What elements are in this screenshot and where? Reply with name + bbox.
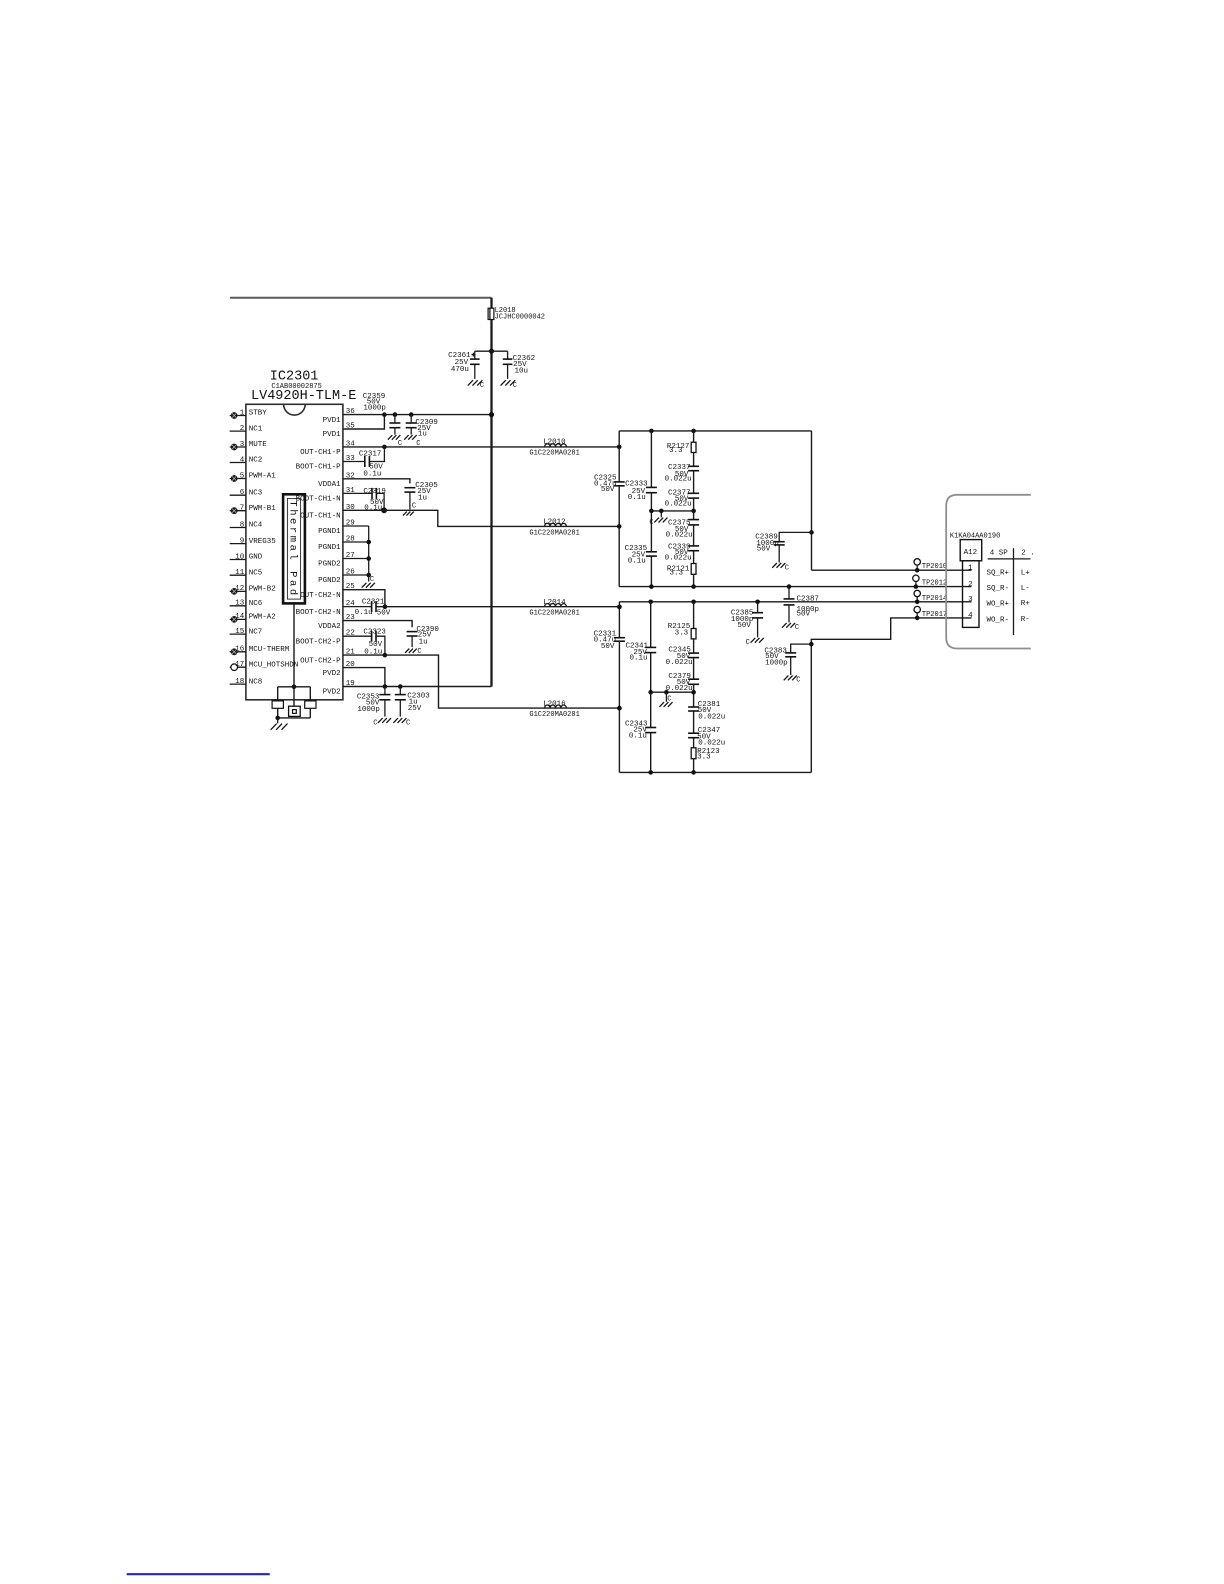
svg-text:4 SP: 4 SP bbox=[990, 550, 1009, 558]
svg-text:4: 4 bbox=[968, 612, 973, 620]
svg-text:0.1u: 0.1u bbox=[628, 494, 646, 502]
svg-text:NC6: NC6 bbox=[249, 600, 263, 608]
svg-text:d: d bbox=[287, 589, 299, 595]
svg-text:BOOT-CH2-P: BOOT-CH2-P bbox=[296, 638, 342, 646]
svg-text:WO_R+: WO_R+ bbox=[987, 601, 1010, 609]
svg-text:G1C220MA0281: G1C220MA0281 bbox=[529, 450, 579, 458]
svg-text:L2012: L2012 bbox=[543, 519, 566, 527]
svg-text:1: 1 bbox=[968, 564, 973, 572]
svg-text:R-: R- bbox=[1021, 616, 1030, 624]
svg-text:PVD1: PVD1 bbox=[323, 431, 342, 439]
capacitor C2361 bbox=[448, 351, 491, 379]
op-amp IC2301 LV4920H-TLM-E body bbox=[246, 370, 356, 700]
svg-text:G1C220MA0281: G1C220MA0281 bbox=[529, 610, 579, 618]
capacitor C2319 bbox=[343, 488, 386, 513]
svg-text:10: 10 bbox=[235, 553, 245, 561]
svg-text:MCU_HOTSHDN: MCU_HOTSHDN bbox=[249, 661, 299, 669]
svg-text:16: 16 bbox=[235, 646, 245, 654]
pin 7 PWM-B1 bbox=[230, 505, 277, 515]
junction node thermal pad ground bbox=[292, 685, 297, 690]
capacitor C2377 bbox=[665, 490, 700, 509]
capacitor C2383 bbox=[764, 644, 811, 675]
svg-text:1u: 1u bbox=[418, 431, 427, 439]
svg-text:1000p: 1000p bbox=[357, 706, 380, 714]
svg-text:PWM-B2: PWM-B2 bbox=[249, 586, 276, 594]
svg-text:G1C220MA0281: G1C220MA0281 bbox=[529, 711, 579, 719]
pin 6 NC3 bbox=[230, 489, 263, 497]
svg-text:18: 18 bbox=[235, 678, 244, 686]
ground C2359 bbox=[388, 435, 402, 448]
svg-text:NC2: NC2 bbox=[249, 457, 263, 465]
svg-text:NC5: NC5 bbox=[249, 569, 263, 577]
svg-text:4: 4 bbox=[240, 456, 245, 464]
test point TP2010 bbox=[914, 559, 947, 573]
net label SQ_R+ L+ bbox=[987, 569, 1031, 577]
svg-text:1u: 1u bbox=[418, 494, 427, 502]
svg-text:3.3: 3.3 bbox=[697, 754, 711, 762]
ground C2385 bbox=[746, 638, 764, 647]
wire R2125 column bbox=[693, 602, 695, 773]
wire SQ_R+ to connector pin 1 bbox=[812, 569, 972, 571]
svg-text:BOOT-CH2-N: BOOT-CH2-N bbox=[296, 609, 341, 617]
svg-text:TP2012: TP2012 bbox=[922, 579, 947, 587]
svg-text:0.022u: 0.022u bbox=[665, 501, 692, 509]
inductor L2016 bbox=[529, 701, 579, 720]
resistor R2127 bbox=[667, 442, 696, 455]
svg-text:VREG35: VREG35 bbox=[249, 538, 277, 546]
capacitor C2359 bbox=[363, 393, 401, 435]
svg-text:C2319: C2319 bbox=[363, 488, 386, 496]
pin 3 MUTE bbox=[230, 441, 268, 451]
wire OUT-CH2-P net pin 21 to L2016 bbox=[343, 655, 619, 708]
svg-text:m: m bbox=[287, 536, 299, 542]
svg-text:VDDA1: VDDA1 bbox=[318, 481, 341, 489]
svg-text:P: P bbox=[287, 571, 299, 577]
pin 2 NC1 bbox=[230, 425, 263, 433]
svg-text:NC4: NC4 bbox=[249, 522, 263, 530]
svg-text:SQ_R-: SQ_R- bbox=[987, 585, 1010, 593]
ground C2303 bbox=[393, 718, 410, 727]
svg-text:L-: L- bbox=[1021, 585, 1030, 593]
wire lower box mid tap bbox=[648, 690, 695, 695]
ground C2305 bbox=[403, 503, 416, 516]
svg-text:0.1u: 0.1u bbox=[364, 505, 382, 513]
junction nodes upper box top bbox=[649, 429, 696, 434]
svg-text:3: 3 bbox=[968, 596, 973, 604]
svg-text:0.022u: 0.022u bbox=[698, 740, 725, 748]
svg-text:PWM-B1: PWM-B1 bbox=[249, 505, 277, 513]
svg-text:OUT-CH2-N: OUT-CH2-N bbox=[300, 592, 341, 600]
capacitor C2305 bbox=[404, 482, 438, 510]
pin 4 NC2 bbox=[230, 456, 263, 464]
svg-text:3.3: 3.3 bbox=[669, 447, 683, 455]
pin 31 BOOT-CH1-N bbox=[296, 487, 356, 504]
svg-text:WO_R-: WO_R- bbox=[987, 617, 1010, 625]
connector A12 body bbox=[960, 540, 982, 561]
svg-text:G1C220MA0281: G1C220MA0281 bbox=[529, 530, 579, 538]
svg-text:C: C bbox=[373, 720, 377, 728]
pin 1 number bbox=[968, 564, 973, 572]
svg-text:470u: 470u bbox=[451, 366, 469, 374]
svg-text:L2014: L2014 bbox=[543, 599, 566, 607]
svg-text:PGND1: PGND1 bbox=[318, 544, 341, 552]
junction node L2016 out bbox=[617, 706, 622, 711]
svg-text:1: 1 bbox=[240, 409, 245, 417]
svg-text:12: 12 bbox=[235, 585, 244, 593]
wire WO_R+ top edge to connector pin 3 bbox=[619, 601, 971, 603]
wire lower box bottom edge bbox=[619, 771, 811, 773]
svg-text:2: 2 bbox=[240, 425, 245, 433]
svg-text:0.022u: 0.022u bbox=[666, 532, 693, 540]
pin 4 number bbox=[968, 612, 973, 620]
connector pin strip bbox=[963, 561, 980, 628]
test point TP2012 bbox=[913, 575, 947, 589]
svg-text:OUT-CH1-N: OUT-CH1-N bbox=[300, 513, 341, 521]
net label SQ_R- L- bbox=[987, 585, 1030, 593]
svg-text:C: C bbox=[370, 576, 374, 584]
svg-text:25V: 25V bbox=[408, 705, 422, 713]
capacitor C2345 bbox=[666, 647, 700, 668]
svg-text:3.3: 3.3 bbox=[675, 630, 689, 638]
pin 1 STBY bbox=[230, 409, 268, 419]
resistor R2125 bbox=[668, 623, 696, 639]
wire lower box left vertical bbox=[618, 602, 620, 773]
pin 33 BOOT-CH1-P bbox=[296, 455, 356, 472]
ground C2389 bbox=[772, 563, 789, 572]
wire SQ_R- bottom edge to connector pin 2 bbox=[619, 586, 971, 588]
svg-text:PGND2: PGND2 bbox=[318, 561, 341, 569]
pin 36 PVD1 bbox=[323, 408, 356, 425]
ground C2387 bbox=[782, 623, 799, 632]
svg-text:BOOT-CH1-P: BOOT-CH1-P bbox=[296, 464, 342, 472]
via pad symbol bbox=[289, 706, 301, 716]
svg-text:50V: 50V bbox=[757, 546, 771, 554]
svg-text:7: 7 bbox=[240, 505, 245, 513]
junction nodes PVD2 bbox=[383, 684, 403, 689]
svg-text:NC7: NC7 bbox=[249, 628, 263, 636]
pin 17 MCU_HOTSHDN bbox=[230, 661, 299, 671]
svg-text:R+: R+ bbox=[1021, 600, 1031, 608]
svg-text:SQ_R+: SQ_R+ bbox=[987, 570, 1010, 578]
pin 21 OUT-CH2-P bbox=[300, 649, 355, 666]
pin 28 PGND1 bbox=[318, 536, 355, 553]
svg-text:PGND2: PGND2 bbox=[318, 577, 341, 585]
svg-text:GND: GND bbox=[249, 554, 263, 562]
wire upper box right vertical bbox=[811, 431, 813, 570]
Thermal Pad bbox=[283, 494, 305, 603]
junction node L2012 out bbox=[617, 524, 622, 529]
ground C2362 bbox=[501, 380, 517, 390]
svg-text:0.022u: 0.022u bbox=[665, 555, 692, 563]
signal table header bbox=[988, 548, 1035, 635]
wire PVD2 net pins 20 19 bbox=[343, 668, 492, 687]
capacitor C2387 bbox=[784, 587, 820, 623]
capacitor C2325 bbox=[594, 474, 625, 494]
svg-text:C: C bbox=[649, 519, 653, 527]
svg-text:14: 14 bbox=[235, 613, 245, 621]
svg-text:0.1u: 0.1u bbox=[628, 557, 646, 565]
svg-text:MCU-THERM: MCU-THERM bbox=[249, 646, 290, 654]
pin 5 PWM-A1 bbox=[230, 472, 277, 482]
ground C2361 bbox=[468, 380, 484, 390]
svg-text:50V: 50V bbox=[601, 486, 615, 494]
svg-text:0.1u: 0.1u bbox=[355, 609, 373, 617]
wire thermal pad stem bbox=[293, 604, 295, 707]
svg-text:NC1: NC1 bbox=[249, 425, 263, 433]
svg-text:11: 11 bbox=[235, 569, 245, 577]
capacitor C2385 bbox=[731, 602, 763, 638]
pin 8 NC4 bbox=[230, 521, 263, 529]
svg-text:13: 13 bbox=[235, 600, 245, 608]
wire PVD rail vertical bus bbox=[490, 298, 492, 687]
capacitor C2309 bbox=[406, 415, 438, 439]
svg-text:0.1u: 0.1u bbox=[363, 471, 381, 479]
svg-text:TP2017: TP2017 bbox=[922, 611, 947, 619]
svg-text:C: C bbox=[480, 382, 484, 390]
capacitor C2331 bbox=[594, 630, 625, 651]
svg-text:1000p: 1000p bbox=[363, 405, 386, 413]
pin 2 number bbox=[968, 581, 973, 589]
capacitor C2337 bbox=[665, 464, 700, 484]
svg-text:C: C bbox=[406, 720, 410, 728]
svg-text:C: C bbox=[795, 624, 799, 632]
capacitor C2375 bbox=[666, 520, 700, 540]
junction nodes OUT-CH2-N bbox=[383, 604, 622, 609]
wire upper filter box top edge bbox=[619, 430, 811, 432]
inductor L2018 bbox=[488, 307, 545, 321]
capacitor C2379 bbox=[666, 673, 700, 693]
svg-text:15: 15 bbox=[235, 628, 245, 636]
svg-text:A12: A12 bbox=[964, 549, 978, 557]
capacitor C2323 bbox=[343, 629, 386, 657]
svg-text:a: a bbox=[287, 545, 299, 551]
wire upper box mid tap bbox=[649, 509, 696, 514]
junction nodes lower box bottom bbox=[648, 770, 695, 775]
svg-text:L2010: L2010 bbox=[543, 439, 566, 447]
inductor L2010 bbox=[529, 439, 579, 458]
junction nodes PVD1 bbox=[382, 412, 494, 417]
ground upper box mid bbox=[649, 511, 667, 527]
svg-text:0.022u: 0.022u bbox=[666, 659, 693, 667]
svg-text:TP2014: TP2014 bbox=[922, 595, 947, 603]
pin 27 PGND2 bbox=[318, 552, 355, 569]
wire VDDA2 pin 23 bbox=[343, 621, 412, 628]
junction node BOOT-CH2-P / OUT-CH2-P bbox=[383, 653, 388, 658]
inductor L2014 bbox=[529, 599, 579, 618]
svg-text:50V: 50V bbox=[377, 610, 391, 618]
svg-text:L2016: L2016 bbox=[543, 701, 566, 709]
pin 25 OUT-CH2-N bbox=[300, 583, 355, 600]
svg-text:OUT-CH1-P: OUT-CH1-P bbox=[300, 449, 341, 457]
junction nodes lower box left bbox=[617, 605, 622, 711]
pin 34 OUT-CH1-P bbox=[300, 440, 355, 457]
inductor L2012 bbox=[529, 519, 579, 538]
net label WO_R- R- bbox=[987, 616, 1030, 624]
svg-text:0.1u: 0.1u bbox=[629, 733, 647, 741]
svg-text:PVD2: PVD2 bbox=[323, 670, 341, 678]
svg-text:0.022u: 0.022u bbox=[698, 713, 725, 721]
capacitor C2362 bbox=[492, 351, 536, 379]
svg-text:1u: 1u bbox=[419, 638, 428, 646]
junction node C2389 tap bbox=[809, 530, 814, 535]
svg-text:PWM-A1: PWM-A1 bbox=[249, 473, 277, 481]
pin 20 PVD2 bbox=[323, 661, 356, 678]
capacitor C2321 bbox=[355, 599, 391, 618]
ground PGND bbox=[362, 576, 375, 588]
capacitor C2389 bbox=[755, 532, 811, 562]
svg-text:C: C bbox=[796, 677, 800, 685]
pin 30 OUT-CH1-N bbox=[300, 504, 355, 521]
junction nodes SQ_R- bbox=[649, 584, 791, 589]
resistor R2121 bbox=[667, 564, 696, 578]
block boundary rounded rect bbox=[946, 495, 1031, 649]
svg-text:50V: 50V bbox=[601, 643, 615, 651]
capacitor C2381 bbox=[688, 701, 725, 722]
net label WO_R+ R+ bbox=[987, 600, 1031, 608]
capacitor C2353 bbox=[357, 687, 391, 717]
svg-text:STBY: STBY bbox=[249, 410, 268, 418]
svg-text:C2317: C2317 bbox=[359, 450, 382, 458]
pin 32 VDDA1 bbox=[318, 472, 355, 489]
test point TP2014 bbox=[914, 590, 947, 604]
capacitor C2343 bbox=[625, 721, 656, 741]
svg-text:17: 17 bbox=[235, 661, 244, 669]
pin 16 MCU-THERM bbox=[230, 646, 290, 656]
capacitor C2317 bbox=[343, 447, 384, 479]
svg-text:OUT-CH2-P: OUT-CH2-P bbox=[300, 657, 341, 665]
svg-text:C: C bbox=[513, 382, 517, 390]
ground thermal pad bbox=[271, 718, 288, 730]
pin 13 NC6 bbox=[230, 600, 263, 608]
pin 10 GND bbox=[230, 553, 263, 561]
pin 19 PVD2 bbox=[323, 680, 355, 697]
pin 22 BOOT-CH2-P bbox=[296, 630, 355, 647]
svg-text:10u: 10u bbox=[515, 367, 529, 375]
svg-text:e: e bbox=[287, 518, 299, 524]
svg-text:l: l bbox=[287, 553, 299, 559]
svg-text:r: r bbox=[287, 527, 299, 533]
junction node C2383 tap bbox=[809, 642, 814, 647]
wire R2127 column bbox=[693, 431, 695, 587]
svg-text:50V: 50V bbox=[797, 611, 811, 619]
svg-text:0.022u: 0.022u bbox=[665, 476, 692, 484]
svg-text:NC8: NC8 bbox=[249, 678, 263, 686]
pin 3 number bbox=[968, 596, 973, 604]
svg-text:JCJHC0000042: JCJHC0000042 bbox=[495, 313, 545, 321]
svg-text:VDDA2: VDDA2 bbox=[318, 623, 341, 631]
resistor R2123 bbox=[691, 748, 720, 762]
svg-text:0.1u: 0.1u bbox=[629, 655, 647, 663]
ground C2383 bbox=[784, 676, 801, 685]
wire C2341 C2343 column bbox=[650, 602, 652, 773]
wire top block boundary bus bbox=[230, 297, 492, 299]
svg-text:PVD2: PVD2 bbox=[323, 689, 341, 697]
junction nodes WO_R+ bbox=[648, 600, 759, 605]
wire C2333 C2335 column bbox=[650, 431, 652, 587]
svg-text:BOOT-CH1-N: BOOT-CH1-N bbox=[296, 496, 341, 504]
svg-text:TP2010: TP2010 bbox=[922, 563, 947, 571]
junction nodes OUT-CH1-P bbox=[382, 445, 621, 450]
wire PVD1 net pins 36 35 bbox=[343, 415, 492, 429]
svg-text:h: h bbox=[287, 509, 299, 515]
wire thermal pad ground manifold bbox=[272, 687, 316, 720]
pin 23 VDDA2 bbox=[318, 614, 355, 631]
pin 29 PGND1 bbox=[318, 520, 355, 537]
capacitor C2339 bbox=[665, 543, 700, 562]
capacitor C2341 bbox=[625, 643, 656, 663]
svg-text:C: C bbox=[667, 696, 671, 704]
svg-text:1000p: 1000p bbox=[765, 660, 788, 668]
ground lower box mid bbox=[659, 692, 672, 707]
wire OUT-CH1-P net pin 34 to L2010 bbox=[343, 446, 619, 448]
capacitor C2303 bbox=[395, 687, 431, 717]
svg-text:a: a bbox=[287, 580, 299, 586]
svg-text:LV4920H-TLM-E: LV4920H-TLM-E bbox=[251, 389, 356, 404]
svg-text:50V: 50V bbox=[737, 622, 751, 630]
svg-text:9: 9 bbox=[240, 537, 245, 545]
svg-text:8: 8 bbox=[240, 521, 245, 529]
ground C2309 bbox=[404, 435, 420, 448]
svg-text:L+: L+ bbox=[1021, 569, 1031, 577]
capacitor C2333 bbox=[625, 481, 657, 502]
svg-text:NC3: NC3 bbox=[249, 489, 263, 497]
capacitor C2347 bbox=[688, 727, 725, 748]
svg-text:2 .: 2 . bbox=[1021, 550, 1035, 558]
wire OUT-CH1-N net pin 30 to L2012 bbox=[343, 510, 619, 526]
pin 18 NC8 bbox=[230, 678, 263, 686]
footer blue rule bbox=[127, 1573, 270, 1575]
svg-text:2: 2 bbox=[968, 581, 973, 589]
svg-text:PGND1: PGND1 bbox=[318, 528, 341, 536]
capacitor C2390 bbox=[407, 626, 440, 647]
pin 11 NC5 bbox=[230, 569, 263, 577]
wire WO_R- right vertical to connector pin 4 bbox=[811, 618, 971, 773]
ground C2390 bbox=[405, 648, 422, 656]
svg-text:C: C bbox=[746, 639, 750, 647]
pin 9 VREG35 bbox=[230, 537, 277, 545]
svg-text:6: 6 bbox=[240, 489, 245, 497]
junction node PVD rail / C2361 C2362 tap bbox=[489, 349, 494, 354]
pin 24 BOOT-CH2-N bbox=[296, 600, 356, 617]
svg-text:5: 5 bbox=[240, 472, 245, 480]
svg-text:C2323: C2323 bbox=[363, 629, 386, 637]
svg-text:MUTE: MUTE bbox=[249, 441, 268, 449]
wire upper box left vertical bbox=[618, 431, 620, 587]
pin 14 PWM-A2 bbox=[230, 613, 276, 623]
svg-text:3.3: 3.3 bbox=[669, 570, 683, 578]
svg-text:PWM-A2: PWM-A2 bbox=[249, 614, 276, 622]
connector K1KA04AA0190 label bbox=[950, 533, 1000, 541]
test point TP2017 bbox=[914, 606, 947, 620]
svg-text:3: 3 bbox=[240, 441, 245, 449]
svg-text:C: C bbox=[785, 564, 789, 572]
wire OUT-CH2-N net pins 25 24 to L2014 bbox=[343, 590, 619, 607]
capacitor C2335 bbox=[625, 545, 657, 565]
pin 26 PGND2 bbox=[318, 569, 355, 586]
junction node BOOT-CH1-N / OUT-CH1-N bbox=[381, 507, 387, 513]
pin 12 PWM-B2 bbox=[230, 585, 276, 595]
pin 35 PVD1 bbox=[323, 423, 356, 440]
ground C2353 bbox=[373, 718, 391, 727]
svg-text:C: C bbox=[412, 503, 416, 511]
pin 15 NC7 bbox=[230, 628, 263, 636]
svg-text:PVD1: PVD1 bbox=[323, 417, 342, 425]
wire VDDA1 pin 32 bbox=[343, 479, 410, 484]
svg-text:C2321: C2321 bbox=[362, 599, 385, 607]
wire PGND manifold pins 29 28 27 26 bbox=[343, 526, 371, 582]
